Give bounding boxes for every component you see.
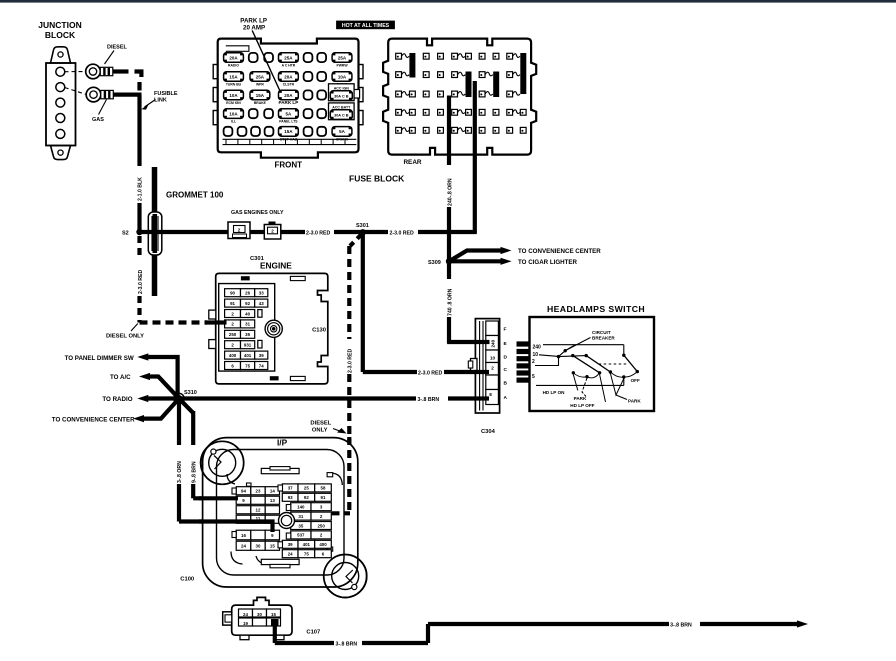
svg-text:ILL: ILL: [231, 120, 236, 124]
svg-text:37: 37: [288, 486, 293, 491]
svg-text:20A: 20A: [284, 93, 293, 98]
arrow to a/c: [110, 373, 179, 399]
svg-text:CLSTR: CLSTR: [283, 83, 295, 87]
fuse 20A GAUGES: [279, 72, 299, 87]
grommet 100: [148, 212, 162, 255]
wire 9-.8 BRN overlay into I/P: [199, 496, 238, 500]
svg-text:PARK LP: PARK LP: [278, 100, 298, 105]
wire stubs into C304 cells: [475, 340, 490, 344]
connector C107 body: [223, 597, 292, 639]
wire 2-3.0 RED S301 to fuse block: [363, 230, 388, 234]
svg-text:94: 94: [241, 489, 246, 494]
cavity r5e: [304, 127, 313, 136]
svg-text:240: 240: [533, 344, 542, 350]
cavity r4d: [317, 109, 326, 118]
svg-text:2-3.0 RED: 2-3.0 RED: [138, 270, 144, 294]
svg-text:10A: 10A: [229, 93, 238, 98]
svg-text:15A: 15A: [284, 129, 293, 134]
svg-text:PARK: PARK: [628, 398, 641, 403]
svg-text:90: 90: [230, 291, 235, 296]
svg-text:FUSIBLE: FUSIBLE: [154, 91, 178, 97]
svg-text:24: 24: [288, 552, 293, 557]
fuse 25A A/C HTR: [279, 53, 299, 68]
svg-text:14: 14: [270, 489, 275, 494]
svg-text:DIESEL: DIESEL: [310, 421, 331, 427]
svg-text:91: 91: [230, 301, 235, 306]
fuse 15A TURN B/U: [224, 72, 244, 87]
svg-text:TO CONVENIENCE CENTER: TO CONVENIENCE CENTER: [518, 248, 601, 255]
svg-text:HD LP OFF: HD LP OFF: [570, 403, 594, 408]
svg-text:401: 401: [244, 353, 252, 358]
svg-text:35: 35: [298, 523, 303, 528]
fuse 10A RADIO: [332, 72, 352, 87]
wire 3-.8 BRN C107 to right arrow: [275, 620, 808, 647]
C304 cells: [486, 321, 508, 405]
svg-text:19: 19: [243, 621, 248, 626]
svg-text:JUNCTION: JUNCTION: [38, 20, 81, 30]
fuse block front body: [213, 39, 363, 158]
svg-text:ENGINE: ENGINE: [260, 261, 292, 271]
svg-text:DIESEL: DIESEL: [107, 45, 128, 51]
fuse 15A BRAKE: [250, 90, 270, 105]
svg-text:931: 931: [244, 343, 252, 348]
svg-text:25: 25: [304, 486, 309, 491]
svg-text:OFF: OFF: [631, 378, 640, 383]
svg-text:HEADLAMPS SWITCH: HEADLAMPS SWITCH: [547, 304, 645, 314]
svg-text:BREAKER: BREAKER: [592, 336, 615, 341]
svg-text:93: 93: [288, 495, 293, 500]
cavity r3d: [317, 90, 326, 99]
svg-text:TO CIGAR LIGHTER: TO CIGAR LIGHTER: [518, 259, 578, 266]
wire 3-.8 ORN S310 to I/P: [177, 399, 181, 446]
svg-text:TO CONVENIENCE CENTER: TO CONVENIENCE CENTER: [52, 416, 135, 423]
svg-text:CIRCUIT: CIRCUIT: [592, 330, 611, 335]
svg-text:2: 2: [491, 365, 494, 370]
fuse 5A CRANK: [332, 127, 352, 142]
cavity r4a: [249, 109, 258, 118]
svg-text:400: 400: [229, 353, 237, 358]
svg-text:92: 92: [245, 301, 250, 306]
headlamps switch box: [530, 317, 655, 411]
wire 3-.8 ORN overlay into I/P: [199, 522, 273, 533]
svg-text:TO RADIO: TO RADIO: [102, 396, 132, 403]
cavity r1c: [304, 53, 313, 62]
ring terminal DIESEL: [65, 64, 113, 79]
svg-text:TO PANEL DIMMER SW: TO PANEL DIMMER SW: [65, 355, 134, 362]
wire between connectors: [250, 230, 264, 234]
svg-text:LINK: LINK: [154, 98, 167, 104]
wire diesel feed: [113, 69, 129, 73]
switch terminals: [517, 341, 531, 382]
svg-text:35: 35: [245, 332, 250, 337]
svg-text:BLOCK: BLOCK: [45, 30, 76, 40]
switch internal circuit: [535, 345, 639, 402]
svg-text:A: A: [504, 395, 508, 401]
wire 2-1.0 BLK: [137, 95, 141, 166]
svg-text:5A: 5A: [339, 129, 346, 134]
firewall bar: [152, 167, 158, 296]
connector gas-1: [228, 222, 250, 239]
svg-text:240-.8 ORN: 240-.8 ORN: [447, 178, 453, 206]
I/P connector body: [201, 438, 367, 598]
svg-text:75: 75: [245, 363, 250, 368]
svg-text:25A: 25A: [256, 74, 265, 79]
svg-text:43: 43: [259, 301, 264, 306]
svg-text:2-3.0 RED: 2-3.0 RED: [348, 349, 354, 373]
svg-text:401: 401: [303, 542, 311, 547]
svg-text:S310: S310: [184, 390, 197, 396]
svg-text:PANEL LTS: PANEL LTS: [279, 120, 298, 124]
svg-text:2: 2: [532, 359, 535, 365]
wire 2-3.0 RED to S301: [281, 230, 305, 234]
fuse 20A PARK LP: [278, 90, 298, 105]
svg-text:15A: 15A: [229, 74, 238, 79]
svg-text:WPR: WPR: [256, 83, 264, 87]
cavity r1b: [264, 53, 273, 62]
top border line: [0, 0, 896, 3]
cavity r5b: [238, 127, 247, 136]
svg-text:20A: 20A: [229, 55, 238, 60]
svg-text:31: 31: [298, 514, 303, 519]
svg-text:FUSE BLOCK: FUSE BLOCK: [349, 174, 405, 184]
svg-text:2: 2: [238, 227, 241, 232]
svg-text:250: 250: [317, 523, 325, 528]
svg-text:S301: S301: [356, 223, 369, 229]
fuse 15A STOP HAZ: [279, 127, 299, 142]
wire 240-.8 ORN rear block to S309: [447, 96, 451, 166]
svg-text:D: D: [504, 354, 508, 360]
svg-text:39: 39: [259, 353, 264, 358]
svg-text:537: 537: [297, 533, 305, 538]
svg-text:31: 31: [245, 322, 250, 327]
svg-text:2-3.0 RED: 2-3.0 RED: [390, 231, 414, 237]
svg-text:25A: 25A: [284, 55, 293, 60]
breaker ACC IGN 30A: [329, 84, 360, 101]
svg-text:ACC BATT: ACC BATT: [332, 105, 351, 109]
cavity r2c: [304, 72, 313, 81]
svg-text:74: 74: [259, 363, 264, 368]
svg-text:23: 23: [256, 489, 261, 494]
svg-text:9-.8 BRN: 9-.8 BRN: [191, 461, 197, 483]
svg-text:C130: C130: [312, 328, 326, 334]
cavity r4c: [304, 109, 313, 118]
svg-text:TO A/C: TO A/C: [110, 374, 131, 381]
fuse 5A PANEL LTS: [279, 109, 299, 124]
I/P bolt: [279, 513, 295, 529]
svg-text:15: 15: [270, 544, 275, 549]
connector C304 body: [468, 319, 499, 413]
fuse block bottom strip: [223, 139, 357, 144]
svg-text:24: 24: [243, 612, 248, 617]
wire diesel-only stub into engine grid: [215, 320, 227, 324]
I/P right grid: [278, 484, 331, 558]
svg-text:10A: 10A: [229, 111, 238, 116]
svg-text:2-3.0 RED: 2-3.0 RED: [418, 371, 442, 377]
svg-text:740 .8 ORN: 740 .8 ORN: [447, 288, 453, 316]
rear terminals grid: [396, 53, 527, 133]
svg-text:25A: 25A: [338, 55, 347, 60]
svg-text:26: 26: [245, 291, 250, 296]
svg-text:40: 40: [245, 311, 250, 316]
svg-text:250: 250: [229, 332, 237, 337]
svg-text:3-.8 ORN: 3-.8 ORN: [177, 461, 183, 483]
svg-text:2-3.0 RED: 2-3.0 RED: [306, 231, 330, 237]
svg-text:2: 2: [271, 229, 274, 234]
I/P lower-left grid: [232, 530, 280, 550]
svg-text:TURN BU: TURN BU: [226, 83, 242, 87]
svg-text:GAS ENGINES ONLY: GAS ENGINES ONLY: [231, 210, 284, 216]
svg-text:58: 58: [321, 486, 326, 491]
wire 3-.8 BRN S310 to C304: [179, 396, 416, 400]
cavity r2d: [317, 72, 326, 81]
wire 9-.8 BRN S310 to I/P: [179, 399, 193, 414]
wire rear block to S301: [473, 81, 477, 234]
svg-text:C: C: [504, 367, 508, 373]
arrow to radio: [102, 395, 179, 403]
fuse block rear body: [383, 39, 536, 155]
wire S2 to gas-only connectors 2-3.0 RED: [140, 230, 229, 234]
svg-text:ONLY: ONLY: [312, 428, 328, 434]
wire S301 down to C304 2-3.0 RED: [361, 232, 365, 372]
engine connector C301 body: [209, 273, 328, 384]
fuse 20A RADIO: [224, 53, 244, 68]
svg-text:3-.8 BRN: 3-.8 BRN: [336, 642, 358, 648]
engine grid cells: [225, 289, 268, 370]
svg-text:BRAKE: BRAKE: [254, 101, 267, 105]
wire diesel-only dashed overlay into I/P: [347, 437, 351, 511]
svg-text:8: 8: [489, 392, 492, 397]
svg-text:20 AMP: 20 AMP: [243, 24, 265, 31]
node S309: [446, 258, 452, 264]
fuse 10A ECM IGN: [224, 90, 244, 105]
wire gas feed: [113, 92, 141, 96]
svg-text:3-.8 BRN: 3-.8 BRN: [670, 623, 692, 629]
ring terminal GAS: [65, 87, 114, 102]
fuse 25A PWR ACC: [332, 53, 352, 68]
node S2: [136, 229, 142, 235]
cavity r3c: [304, 90, 313, 99]
svg-text:12: 12: [256, 508, 261, 513]
svg-text:24: 24: [241, 544, 246, 549]
svg-text:30: 30: [256, 544, 261, 549]
svg-text:33: 33: [259, 291, 264, 296]
svg-text:30A C B: 30A C B: [334, 113, 349, 117]
svg-text:DIESEL ONLY: DIESEL ONLY: [106, 334, 144, 340]
svg-text:C304: C304: [481, 429, 496, 435]
svg-text:16: 16: [241, 533, 246, 538]
cavity r5d: [265, 127, 274, 136]
wire 740 .8 ORN S309 to C304: [447, 261, 451, 279]
svg-text:10A: 10A: [338, 74, 347, 79]
wire fusible link corner: [135, 72, 142, 78]
svg-text:A C HTR: A C HTR: [282, 64, 296, 68]
fuse 25A WIPER: [250, 72, 270, 87]
svg-text:GROMMET 100: GROMMET 100: [166, 191, 224, 200]
svg-text:PARK LP: PARK LP: [240, 17, 267, 24]
svg-text:30: 30: [257, 612, 262, 617]
svg-text:C107: C107: [306, 630, 320, 636]
svg-text:140: 140: [297, 505, 305, 510]
svg-text:10: 10: [533, 352, 539, 358]
svg-text:13: 13: [270, 498, 275, 503]
svg-text:HD LP ON: HD LP ON: [543, 390, 566, 395]
svg-text:75: 75: [304, 552, 309, 557]
arrow to panel dimmer sw: [65, 353, 178, 398]
svg-text:240: 240: [491, 339, 496, 347]
fuse 10A ILL: [224, 109, 244, 124]
junction block: [46, 47, 76, 160]
svg-text:3-.8 BRN: 3-.8 BRN: [418, 397, 440, 403]
svg-text:S2: S2: [122, 231, 129, 237]
svg-text:15: 15: [271, 612, 276, 617]
cavity r5a: [224, 127, 233, 136]
HOT AT ALL TIMES badge: [336, 21, 395, 30]
svg-text:C100: C100: [180, 576, 194, 582]
svg-text:15A: 15A: [256, 93, 265, 98]
svg-text:FRONT: FRONT: [275, 161, 303, 170]
svg-text:400: 400: [319, 542, 327, 547]
node S301: [360, 229, 366, 235]
cavity r1a: [249, 53, 258, 62]
svg-text:30A C B: 30A C B: [334, 94, 349, 98]
cavity r5f: [317, 127, 326, 136]
svg-text:B: B: [504, 380, 508, 386]
svg-text:39: 39: [288, 542, 293, 547]
svg-text:5A: 5A: [286, 111, 293, 116]
I/P left grid: [232, 483, 280, 523]
svg-text:20A: 20A: [284, 74, 293, 79]
node S310: [176, 395, 183, 402]
arrow to convenience center: [449, 247, 601, 261]
svg-text:S309: S309: [428, 260, 441, 266]
svg-text:PARK: PARK: [574, 396, 587, 401]
svg-text:RADIO: RADIO: [228, 64, 239, 68]
svg-text:ACC IGN: ACC IGN: [334, 86, 350, 90]
svg-text:ECM IGN: ECM IGN: [226, 101, 241, 105]
svg-text:GAS: GAS: [92, 117, 104, 123]
svg-text:F: F: [504, 326, 507, 332]
svg-text:HOT AT ALL TIMES: HOT AT ALL TIMES: [342, 23, 390, 29]
cavity r1d: [317, 53, 326, 62]
connector gas-2: [264, 222, 281, 240]
svg-text:5: 5: [532, 374, 535, 380]
wire diesel-only dashed S301 to I/P: [350, 233, 363, 246]
cavity r5c: [251, 127, 260, 136]
svg-text:REAR: REAR: [403, 159, 421, 166]
engine bolt: [265, 320, 282, 337]
svg-text:PWRW: PWRW: [336, 64, 348, 68]
cavity r4b: [264, 109, 273, 118]
svg-text:91: 91: [321, 495, 326, 500]
wire diesel-only dashed 2-3.0 RED: [137, 236, 141, 260]
arrow to convenience center 2: [52, 399, 179, 424]
svg-text:92: 92: [304, 495, 309, 500]
svg-text:10: 10: [490, 356, 496, 361]
svg-text:2-1.0 BLK: 2-1.0 BLK: [138, 177, 144, 201]
arrow to cigar lighter: [449, 258, 578, 266]
breaker ACC BATT 30A: [329, 103, 355, 120]
svg-text:I/P: I/P: [277, 437, 288, 447]
